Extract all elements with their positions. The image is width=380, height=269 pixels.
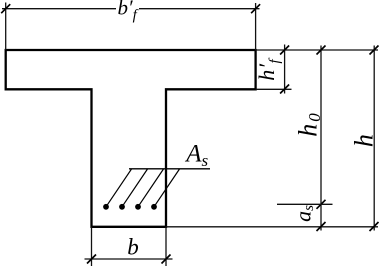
wire: bottom extension line (web bottom continued to h dim) (166, 226, 378, 228)
wire: right extension line of b'f (255, 3, 257, 50)
tick h0 top (317, 46, 326, 55)
dimension line b (85, 258, 173, 260)
dimension line h0 (320, 46, 322, 231)
wire: left extension line of b (91, 227, 93, 266)
svg-text:b: b (127, 235, 139, 260)
tick h bottom (370, 222, 379, 231)
wire: top extension line (flange top continued to h dim) (256, 49, 378, 51)
tick b left (87, 255, 96, 264)
dimension line b'f (left segment) (2, 8, 116, 10)
tick as bottom (317, 222, 326, 231)
svg-text:h: h (350, 134, 379, 147)
wire: leader horizontal under As (129, 168, 210, 170)
rebar dot 2 (119, 204, 125, 210)
wire: as extension line at rebar level (277, 203, 333, 205)
tick b'f right (251, 4, 260, 13)
leader line from dot 2 (122, 169, 148, 207)
tick h'f top (280, 46, 289, 55)
rebar dot 3 (135, 204, 141, 210)
leader line from dot 3 (138, 169, 164, 207)
tick b right (162, 255, 171, 264)
dimension line h'f (284, 45, 286, 94)
dimension line h (373, 46, 375, 231)
tick h'f bottom (280, 85, 289, 94)
wire: right extension line of b (165, 227, 167, 266)
dimension line b'f (right segment) (139, 8, 260, 10)
tick h0 bottom (at as line) (317, 200, 326, 209)
rebar dot 1 (103, 204, 109, 210)
leader line from dot 1 (106, 169, 132, 207)
tick h top (370, 46, 379, 55)
leader line from dot 4 (154, 169, 180, 207)
wire: flange-bottom extension for h'f (256, 88, 292, 90)
wire: left extension line of b'f (5, 3, 7, 51)
rebar dot 4 (151, 204, 157, 210)
T-beam section outline (6, 50, 256, 227)
tick b'f left (1, 4, 10, 13)
